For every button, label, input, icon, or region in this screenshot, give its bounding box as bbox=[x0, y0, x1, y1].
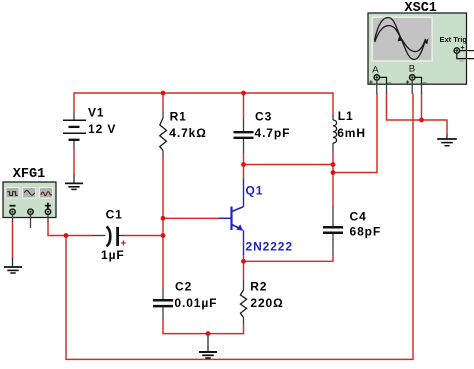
junction: rail/C3 bbox=[241, 91, 246, 96]
wire: battery V1 top stub to rail bbox=[73, 92, 75, 111]
wire: Q1 emitter pin to emitter node bbox=[243, 255, 245, 262]
svg-text:68pF: 68pF bbox=[350, 225, 382, 239]
svg-text:Q1: Q1 bbox=[246, 184, 264, 198]
svg-text:2N2222: 2N2222 bbox=[246, 240, 293, 254]
terminal B bbox=[410, 75, 415, 80]
svg-text:A: A bbox=[372, 64, 379, 75]
svg-text:220Ω: 220Ω bbox=[250, 296, 283, 310]
capacitor C3 4.7pF bbox=[234, 118, 254, 153]
junction: collector/tank bbox=[241, 162, 246, 167]
capacitor C2 0.01uF bbox=[153, 289, 173, 318]
wire: R2 bottom to ground node bbox=[208, 325, 244, 334]
svg-text:C3: C3 bbox=[255, 109, 272, 123]
scope screen trace 1 bbox=[375, 17, 426, 59]
wire: V+ top rail from battery V1 to L1 bbox=[74, 92, 333, 94]
wire: input node to C1 left pin bbox=[66, 235, 93, 237]
svg-text:Ext Trig: Ext Trig bbox=[440, 35, 468, 44]
junction: scope-A tap bbox=[331, 170, 336, 175]
inductor L1 6mH bbox=[333, 115, 337, 152]
wire: oscilloscope B- return to ground wire bbox=[421, 94, 423, 121]
wire: C2 bottom to ground node bbox=[163, 318, 208, 334]
ground (XFG1 minus) bbox=[4, 258, 22, 274]
scope screen trace 2 bbox=[375, 26, 426, 52]
svg-text:4.7kΩ: 4.7kΩ bbox=[169, 126, 206, 140]
capacitor C4 68pF bbox=[323, 206, 343, 254]
wire: R1 bottom through base node and C1 node down to C2 bbox=[162, 156, 164, 289]
junction: ground node bbox=[206, 331, 211, 336]
pin: XFG1 plus stub bbox=[47, 215, 49, 223]
svg-text:L1: L1 bbox=[338, 109, 354, 123]
wire: rail to C3 top bbox=[243, 92, 245, 118]
wire: XFG1 plus terminal to input node bbox=[48, 221, 66, 236]
junction: scope B- tap bbox=[419, 118, 424, 123]
wire: C1 right pin to base branch bbox=[124, 235, 164, 237]
junction: C1/R1 node bbox=[161, 233, 166, 238]
svg-text:V1: V1 bbox=[88, 106, 104, 120]
wire: scope-A node to oscilloscope channel A bbox=[333, 94, 377, 173]
battery V1 12V bbox=[63, 112, 86, 149]
svg-text:R1: R1 bbox=[170, 109, 187, 123]
svg-text:1µF: 1µF bbox=[101, 248, 125, 262]
wire: battery V1 bottom to ground bbox=[73, 149, 75, 177]
pin: scope B- stub bbox=[421, 84, 423, 94]
pin: XFG1 minus stub bbox=[12, 215, 14, 223]
pin: XFG1 common stub (unconnected) bbox=[30, 215, 32, 229]
junction: rail/R1 bbox=[161, 91, 166, 96]
terminal Ext Trig bbox=[454, 48, 459, 53]
svg-text:12 V: 12 V bbox=[88, 122, 116, 136]
ground (C2/R2 node) bbox=[199, 336, 217, 358]
wire: oscilloscope A- return to ground bbox=[387, 94, 448, 135]
svg-text:B: B bbox=[409, 63, 415, 74]
svg-text:+: + bbox=[406, 79, 410, 86]
wire: XFG1 minus terminal to ground bbox=[12, 221, 14, 259]
wire: base node to Q1 base bbox=[163, 217, 220, 219]
resistor R2 220 Ohm bbox=[240, 280, 246, 325]
wire: C3 bottom to tank node bbox=[243, 153, 245, 165]
transistor Q1 2N2222 (NPN) bbox=[219, 179, 244, 256]
wire: emitter node to R2 top bbox=[243, 261, 245, 279]
pin: scope B+ stub bbox=[411, 80, 413, 94]
wire: feedback/input run to oscilloscope channel B bbox=[66, 94, 413, 360]
terminal A bbox=[374, 75, 379, 80]
instrument XFG1 function generator bbox=[3, 182, 56, 218]
wire: tank bottom C3 to L1 bbox=[244, 164, 334, 166]
wire: collector node down to Q1 collector pin bbox=[243, 165, 245, 179]
wire: scope-A node down to C4 top bbox=[332, 173, 334, 207]
wire: C4 bottom to emitter node bbox=[244, 254, 334, 261]
junction: L1 bottom bbox=[331, 162, 336, 167]
svg-text:6mH: 6mH bbox=[337, 126, 366, 140]
junction: emitter node bbox=[241, 259, 246, 264]
wire: rail to R1 top bbox=[162, 92, 164, 109]
svg-text:C4: C4 bbox=[350, 210, 367, 224]
wire: L1 bottom to scope-A node bbox=[332, 152, 334, 173]
junction: base node bbox=[161, 216, 166, 221]
svg-text:C2: C2 bbox=[175, 279, 192, 293]
pin: scope A- stub bbox=[386, 84, 388, 94]
pin: scope A+ stub bbox=[376, 80, 378, 94]
ground (battery V1) bbox=[65, 176, 83, 190]
svg-text:4.7pF: 4.7pF bbox=[255, 126, 291, 140]
wire: rail corner to L1 top bbox=[332, 92, 334, 115]
resistor R1 4.7k bbox=[160, 109, 167, 156]
instrument XSC1 oscilloscope bbox=[368, 13, 474, 86]
svg-text:C1: C1 bbox=[106, 207, 123, 221]
svg-text:R2: R2 bbox=[250, 279, 267, 293]
junction: input node bbox=[64, 233, 69, 238]
svg-text:XFG1: XFG1 bbox=[13, 167, 45, 182]
svg-text:XSC1: XSC1 bbox=[405, 1, 437, 16]
svg-text:+: + bbox=[369, 79, 373, 86]
capacitor C1 1uF polarized bbox=[93, 227, 125, 247]
ground (oscilloscope returns) bbox=[437, 134, 457, 146]
svg-text:0.01µF: 0.01µF bbox=[174, 296, 217, 310]
